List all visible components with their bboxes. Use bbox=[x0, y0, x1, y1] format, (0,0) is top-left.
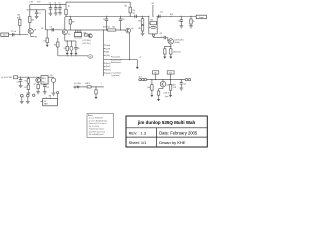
svg-text:C9: C9 bbox=[103, 19, 105, 21]
svg-text:C8: C8 bbox=[77, 48, 79, 50]
arrow under R7 bbox=[46, 43, 49, 47]
svg-text:R32: R32 bbox=[173, 87, 176, 89]
resistor R30 bbox=[147, 80, 153, 95]
svg-text:R14: R14 bbox=[112, 27, 115, 29]
svg-text:+9V: +9V bbox=[159, 33, 163, 35]
svg-text:R18: R18 bbox=[170, 14, 173, 16]
label lfo3 bbox=[101, 83, 102, 85]
diode D1 box bbox=[13, 76, 17, 79]
op-amp IC1 bbox=[74, 30, 82, 39]
wire loop right bbox=[157, 16, 158, 34]
transistor Q1 bbox=[28, 29, 36, 34]
svg-text:( C12 10n ): ( C12 10n ) bbox=[82, 43, 91, 45]
svg-text:R12: R12 bbox=[138, 21, 141, 23]
ground under C21 bbox=[43, 92, 47, 94]
svg-text:R1: R1 bbox=[17, 17, 19, 19]
wire R7 branch bbox=[46, 30, 48, 38]
sheet text bbox=[129, 140, 147, 145]
svg-text:[ R22 10k ]: [ R22 10k ] bbox=[173, 52, 181, 54]
connector lfo gnd bbox=[57, 92, 59, 99]
svg-text:Vb: Vb bbox=[89, 56, 91, 58]
svg-text:C: C bbox=[162, 35, 163, 37]
wire loop to q5 line bbox=[153, 36, 164, 37]
ground under Vb bbox=[52, 93, 56, 95]
net box Vout bbox=[167, 71, 174, 75]
ground under R24 bbox=[36, 92, 40, 94]
wire Vb stem bbox=[155, 74, 157, 80]
svg-text:R9: R9 bbox=[64, 48, 66, 50]
svg-text:From switch: From switch bbox=[111, 56, 120, 59]
wire Q6 down bbox=[129, 33, 131, 60]
svg-text:R4: R4 bbox=[35, 37, 37, 39]
svg-text:R10: R10 bbox=[72, 21, 75, 23]
wire Rdiv mid bbox=[142, 23, 144, 26]
svg-text:C3: C3 bbox=[49, 2, 51, 4]
jack Input bbox=[1, 33, 9, 37]
svg-text:68k: 68k bbox=[32, 19, 35, 21]
svg-text:+: + bbox=[15, 94, 16, 96]
net label +9V mid bbox=[159, 33, 163, 35]
svg-text:(Gnd): (Gnd) bbox=[106, 45, 111, 47]
capacitor C6 bbox=[50, 26, 54, 31]
svg-text:R5: R5 bbox=[68, 6, 70, 8]
svg-text:10k: 10k bbox=[132, 10, 135, 12]
wire Q2 emitter bbox=[65, 35, 76, 42]
svg-text:C2: C2 bbox=[39, 13, 41, 15]
capacitor C14 loop bbox=[149, 26, 157, 28]
node Vb circle bbox=[51, 77, 55, 82]
svg-text:C1 10n: C1 10n bbox=[11, 31, 16, 33]
capacitor C8 bbox=[74, 41, 79, 53]
connector P4 bbox=[185, 78, 187, 80]
label R13 bbox=[103, 27, 110, 29]
svg-text:Vb: Vb bbox=[50, 75, 52, 77]
label R2 bbox=[27, 10, 29, 12]
wire bus column bbox=[103, 30, 105, 76]
capacitor C5 bbox=[58, 2, 61, 12]
svg-text:C6: C6 bbox=[50, 26, 52, 28]
svg-text:R7: R7 bbox=[44, 40, 46, 42]
label q8 lower bbox=[163, 92, 170, 98]
svg-text:R2: R2 bbox=[27, 10, 29, 12]
wire Vb gnd bbox=[53, 82, 55, 93]
svg-text:9.6V: 9.6V bbox=[37, 2, 41, 4]
arrow under C8 bbox=[74, 53, 77, 55]
wire +9V feed to R11 bbox=[66, 2, 130, 7]
label C12 row bbox=[82, 43, 91, 45]
arrow under R20 bbox=[163, 57, 166, 59]
connector lfo circle bbox=[74, 86, 76, 88]
label pot conn bbox=[139, 77, 142, 79]
ground under C14o bbox=[179, 26, 183, 28]
svg-text:R28 1k: R28 1k bbox=[85, 83, 90, 85]
svg-text:R16: R16 bbox=[84, 32, 87, 34]
wire reg out bbox=[48, 75, 53, 77]
svg-text:R13 470k: R13 470k bbox=[103, 27, 110, 29]
svg-text:(Pot1): (Pot1) bbox=[106, 69, 111, 72]
resistor R31 bbox=[157, 87, 163, 99]
arrow under R21 bbox=[169, 57, 172, 59]
ground under C4 bbox=[54, 13, 58, 15]
capacitor C25 bbox=[27, 94, 30, 101]
svg-text:[ buffer ]: [ buffer ] bbox=[174, 42, 180, 44]
svg-text:C10: C10 bbox=[122, 19, 125, 21]
resistor R21 bbox=[170, 47, 172, 57]
svg-text:(C) (100n): (C) (100n) bbox=[74, 83, 81, 85]
wire stage2 top bbox=[45, 10, 62, 30]
node R1 top bbox=[17, 14, 20, 19]
resistor R22 bbox=[25, 77, 30, 83]
svg-text:( gain ): ( gain ) bbox=[165, 96, 170, 98]
svg-text:+9V: +9V bbox=[151, 3, 155, 5]
capacitor C13 bbox=[159, 11, 163, 18]
wire loop left bbox=[148, 16, 149, 34]
capacitor C13b bbox=[162, 35, 166, 39]
svg-text:Q7: Q7 bbox=[34, 84, 36, 86]
arrow under R30 bbox=[150, 95, 153, 97]
wire bottom bus bbox=[58, 55, 89, 56]
resistor R15 bbox=[138, 25, 143, 31]
svg-text:Notes: Notes bbox=[88, 114, 93, 117]
svg-text:C14: C14 bbox=[178, 20, 181, 22]
net label +9V loop bbox=[151, 3, 155, 5]
svg-text:Date: February 2005: Date: February 2005 bbox=[159, 130, 198, 135]
wire R11 down bbox=[129, 13, 131, 16]
wire output line bbox=[157, 16, 196, 17]
wire lfo line bbox=[76, 86, 104, 87]
capacitor C14o bbox=[178, 16, 183, 25]
wire psu line bbox=[18, 77, 49, 78]
date text bbox=[159, 130, 198, 135]
wire loop bottom bbox=[149, 33, 157, 35]
ground under C26 bbox=[179, 88, 183, 90]
label q5 lower bbox=[173, 52, 181, 54]
resistor R16 bbox=[149, 20, 157, 25]
svg-text:Drwan by KHE: Drwan by KHE bbox=[159, 140, 186, 145]
capacitor C26 bbox=[180, 80, 186, 88]
node loop bubble bbox=[152, 34, 154, 36]
arrow under R27 bbox=[95, 97, 98, 99]
wire R8 vertical bbox=[57, 38, 59, 56]
transistor Q2 bbox=[62, 29, 70, 35]
wire rail corner bbox=[66, 5, 70, 10]
ground under C25 bbox=[26, 101, 30, 103]
connector stub rows bbox=[104, 45, 111, 75]
svg-text:C5: C5 bbox=[58, 2, 60, 4]
label q8 row bbox=[166, 85, 176, 87]
connector P5 bbox=[188, 78, 190, 80]
title text bbox=[137, 120, 196, 125]
connector P3 bbox=[144, 78, 146, 80]
wire mid h line bbox=[104, 59, 138, 60]
resistor R32 bbox=[169, 80, 176, 95]
transistor Q5 bbox=[168, 39, 173, 44]
wire rail stub down bbox=[29, 5, 31, 10]
label batt top bbox=[49, 95, 52, 97]
resistor R10 bbox=[69, 16, 75, 31]
svg-text:(Pot2): (Pot2) bbox=[106, 72, 111, 75]
svg-text:(Vb): (Vb) bbox=[106, 52, 110, 54]
capacitor C7 electrolytic bbox=[70, 41, 73, 53]
capacitor C1 bbox=[11, 31, 16, 36]
arrow under C7 bbox=[70, 53, 73, 55]
svg-text:Q1: Q1 bbox=[34, 29, 36, 31]
resistor R14 bbox=[108, 27, 116, 32]
battery box bbox=[43, 97, 58, 106]
svg-text:R16: R16 bbox=[150, 20, 153, 22]
ground under C3 bbox=[49, 13, 53, 15]
wire input line bbox=[9, 34, 29, 35]
transistor Q3 bbox=[88, 34, 92, 38]
svg-text:Q2: Q2 bbox=[68, 34, 70, 36]
wire batt stub bbox=[40, 101, 42, 103]
connector P2 bbox=[142, 78, 144, 80]
svg-text:( to pot brd ): ( to pot brd ) bbox=[112, 71, 122, 74]
label lfo2 bbox=[85, 83, 90, 85]
wire R27 gnd bbox=[95, 94, 97, 97]
resistor R20 bbox=[164, 47, 166, 57]
wire rail branch y10 bbox=[29, 9, 45, 10]
svg-text:R6: R6 bbox=[41, 28, 43, 30]
connector P1 bbox=[139, 78, 141, 80]
label dc plus bbox=[15, 94, 16, 96]
arrow under R32 bbox=[169, 95, 172, 97]
ground under C24 bbox=[20, 101, 24, 103]
label q5 row2 bbox=[174, 42, 180, 44]
capacitor C9 bbox=[103, 16, 108, 30]
net box Vb bbox=[152, 71, 158, 75]
svg-text:( R35 1k ): ( R35 1k ) bbox=[163, 92, 170, 94]
svg-text:Q6: Q6 bbox=[131, 28, 133, 30]
svg-text:1M5: 1M5 bbox=[17, 14, 20, 16]
ground under R23 bbox=[27, 93, 31, 95]
capacitor C4 bbox=[54, 2, 57, 12]
drawn text bbox=[159, 140, 186, 145]
jack Output bbox=[196, 15, 206, 19]
svg-text:IC1 TL022: IC1 TL022 bbox=[74, 37, 82, 39]
ground under R19 bbox=[189, 26, 193, 28]
wire R5 down to Q2 bbox=[65, 15, 67, 30]
resistor R1 bbox=[17, 17, 21, 25]
label switch block bbox=[111, 56, 121, 64]
transistor Q8 bbox=[160, 80, 166, 87]
ground under C5 bbox=[58, 13, 62, 15]
wire mid line bbox=[67, 29, 125, 30]
resistor R9 bbox=[64, 41, 69, 53]
title block frame bbox=[126, 116, 207, 147]
svg-text:[ Q5 BC549 ]: [ Q5 BC549 ] bbox=[174, 39, 184, 41]
transistor Q7 bbox=[34, 78, 41, 86]
wire +9V rail bbox=[30, 4, 66, 5]
svg-text:(Out): (Out) bbox=[106, 54, 110, 57]
resistor R2 bbox=[29, 17, 35, 23]
rev text bbox=[129, 130, 146, 135]
svg-text:R15: R15 bbox=[138, 28, 141, 30]
arrow under R9 bbox=[66, 53, 69, 55]
svg-text:1k: 1k bbox=[193, 21, 195, 23]
wire R2 to Q1 bbox=[29, 23, 31, 29]
wire right stub down bbox=[136, 57, 142, 70]
svg-text:=: = bbox=[101, 83, 102, 85]
wire branch to R2 bbox=[29, 10, 31, 17]
svg-text:C11: C11 bbox=[132, 13, 135, 15]
label R17 row bbox=[83, 40, 92, 42]
capacitor C10 bbox=[119, 16, 125, 30]
wire Q1 emitter bbox=[31, 34, 37, 39]
svg-text:C26: C26 bbox=[183, 84, 186, 86]
label R18 bbox=[170, 14, 173, 16]
resistor R8 bbox=[54, 42, 59, 47]
label lfo1 bbox=[74, 83, 81, 85]
svg-text:( R17 33k ): ( R17 33k ) bbox=[83, 40, 92, 42]
capacitor C21 bbox=[43, 84, 49, 92]
wire R1 branch bbox=[19, 26, 21, 35]
label lower block bbox=[112, 71, 122, 77]
capacitor C24 bbox=[21, 94, 25, 101]
capacitor C20 bbox=[17, 77, 23, 85]
svg-text:C4: C4 bbox=[54, 2, 56, 4]
wire R23 gnd bbox=[27, 90, 29, 93]
wire +9V stem bbox=[152, 5, 154, 16]
resistor R27 bbox=[95, 87, 97, 94]
resistor R7 bbox=[44, 38, 49, 43]
svg-text:-: - bbox=[35, 95, 36, 97]
capacitor C11 bbox=[132, 13, 136, 18]
wire Rdiv gnd bbox=[142, 31, 144, 33]
transistor Q6 bbox=[126, 28, 134, 33]
label 9V DC bbox=[1, 77, 13, 79]
ground under C20 bbox=[19, 85, 23, 87]
capacitor C2 bbox=[35, 10, 41, 16]
net label +9V bbox=[29, 2, 41, 4]
svg-text:R22: R22 bbox=[25, 81, 28, 83]
arrow under Q8 bbox=[157, 99, 160, 101]
svg-text:Sheet: 1/1: Sheet: 1/1 bbox=[129, 140, 147, 145]
svg-text:( gnd wire ): ( gnd wire ) bbox=[112, 74, 121, 77]
svg-text:R11: R11 bbox=[124, 5, 127, 7]
svg-text:R8: R8 bbox=[54, 44, 56, 46]
resistor R11 bbox=[129, 7, 135, 13]
resistor R24 bbox=[37, 84, 39, 91]
svg-text:C13: C13 bbox=[160, 11, 163, 13]
wire pot line bbox=[147, 79, 186, 80]
regulator box bbox=[41, 76, 48, 84]
svg-text:SW: SW bbox=[49, 95, 52, 97]
svg-text:jim dunlop 535Q Multi Wah: jim dunlop 535Q Multi Wah bbox=[137, 120, 196, 125]
node stage2 bbox=[41, 28, 53, 30]
capacitor C22 bbox=[78, 86, 79, 89]
ground under R15 bbox=[141, 33, 145, 35]
capacitor C3 bbox=[49, 2, 52, 13]
resistor R12 bbox=[138, 19, 143, 25]
node TP oval bbox=[88, 55, 93, 59]
wire Q5 emitter bbox=[164, 44, 171, 47]
ground under C2 bbox=[35, 16, 39, 18]
wire Q7 emitter bbox=[37, 82, 39, 84]
resistor R16a bbox=[84, 32, 89, 36]
svg-text:(+9V): (+9V) bbox=[106, 48, 111, 50]
svg-text:C20: C20 bbox=[17, 81, 20, 83]
wire feedback line bbox=[66, 16, 153, 17]
svg-text:REV. : 1.3: REV. : 1.3 bbox=[129, 130, 146, 135]
connector ring bbox=[33, 94, 37, 97]
wire Vout stem bbox=[170, 74, 172, 80]
label q5 row1 bbox=[174, 39, 184, 41]
svg-text:R30: R30 bbox=[147, 87, 150, 89]
svg-text:C21: C21 bbox=[46, 87, 49, 89]
svg-text:R23: R23 bbox=[25, 87, 28, 89]
resistor R26 bbox=[87, 86, 91, 88]
resistor R23 bbox=[25, 83, 30, 89]
svg-text:(Sw2): (Sw2) bbox=[106, 66, 111, 68]
notes box bbox=[87, 114, 114, 138]
svg-text:sw: sw bbox=[139, 57, 142, 59]
svg-text:Switch board: Switch board bbox=[111, 61, 121, 64]
resistor R5 bbox=[65, 9, 67, 14]
svg-text:a: a bbox=[23, 96, 24, 98]
wire to Q5 base bbox=[166, 38, 168, 42]
svg-text:+9V: +9V bbox=[29, 2, 33, 4]
resistor R19 bbox=[190, 16, 195, 25]
wire Rdiv drop bbox=[142, 16, 144, 18]
svg-text:(+) 9V DC INP: (+) 9V DC INP bbox=[1, 77, 13, 79]
